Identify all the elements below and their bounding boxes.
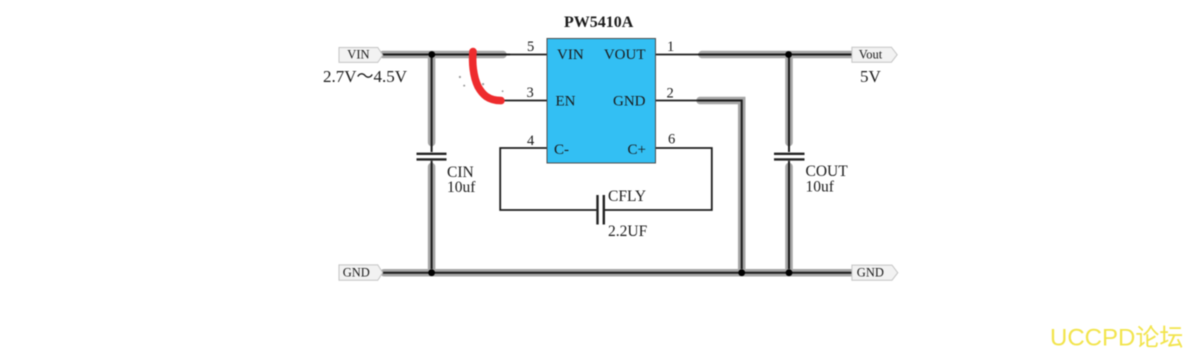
port tag Vout xyxy=(852,47,897,62)
svg-text:VOUT: VOUT xyxy=(604,47,646,63)
svg-text:GND: GND xyxy=(857,266,884,280)
node junction VOUT/COUT xyxy=(785,51,792,58)
wire GND bottom rail xyxy=(381,269,852,277)
wire pin2 thin xyxy=(655,100,704,102)
svg-text:PW5410A: PW5410A xyxy=(564,14,634,31)
port tag VIN xyxy=(339,48,383,63)
capacitor CIN plates xyxy=(417,154,447,160)
wire COUT vertical lower xyxy=(785,161,793,273)
svg-text:6: 6 xyxy=(668,132,675,148)
speck artifacts near red jumper xyxy=(459,76,504,92)
svg-text:C+: C+ xyxy=(628,142,646,158)
label CIN value xyxy=(447,164,476,196)
wire pin6 C+ loop right xyxy=(605,148,712,210)
svg-text:10uf: 10uf xyxy=(806,179,835,196)
svg-text:VIN: VIN xyxy=(557,47,584,63)
svg-text:5V: 5V xyxy=(860,67,882,86)
svg-text:VIN: VIN xyxy=(347,48,369,62)
wire pin3 thin xyxy=(499,100,547,102)
wire VIN rail thick gray xyxy=(381,51,510,59)
svg-text:EN: EN xyxy=(556,94,576,110)
svg-text:5: 5 xyxy=(527,39,534,55)
node junction VIN/CIN xyxy=(428,51,435,58)
label COUT value xyxy=(806,163,849,196)
svg-text:GND: GND xyxy=(343,266,370,280)
wire GND pin2 to ground vertical xyxy=(698,101,742,273)
node junction GND/CIN xyxy=(428,269,435,276)
svg-text:10uf: 10uf xyxy=(447,179,476,196)
svg-text:COUT: COUT xyxy=(806,163,849,180)
svg-text:GND: GND xyxy=(613,94,646,110)
wire pin1 thin xyxy=(655,54,706,56)
wire pin5 thin xyxy=(495,54,547,56)
wire CIN vertical lower xyxy=(428,161,436,273)
capacitor COUT plates xyxy=(774,154,805,160)
wire VOUT rail thick gray xyxy=(698,51,852,59)
svg-text:2.7V～4.5V: 2.7V～4.5V xyxy=(323,67,408,86)
wire CIN vertical upper xyxy=(428,55,436,153)
wire EN red jumper xyxy=(473,52,501,101)
svg-text:Vout: Vout xyxy=(859,48,883,62)
svg-text:4: 4 xyxy=(527,133,535,149)
svg-text:UCCPD论坛: UCCPD论坛 xyxy=(1050,325,1183,352)
port tag GND left xyxy=(339,265,383,280)
op-amp U1 PW5410A IC body xyxy=(547,39,656,164)
svg-text:2.2UF: 2.2UF xyxy=(608,223,648,240)
capacitor CFLY plates xyxy=(598,195,604,225)
svg-text:2: 2 xyxy=(667,86,674,102)
svg-text:CFLY: CFLY xyxy=(608,188,646,205)
node junction GND/COUT xyxy=(786,269,793,276)
svg-text:C-: C- xyxy=(554,142,569,158)
svg-text:3: 3 xyxy=(527,85,534,101)
wire pin4 C- loop left xyxy=(500,148,596,210)
wire COUT vertical upper xyxy=(785,55,793,153)
port tag GND right xyxy=(852,265,898,280)
svg-text:1: 1 xyxy=(667,39,674,55)
node junction GND/IC xyxy=(738,269,745,276)
